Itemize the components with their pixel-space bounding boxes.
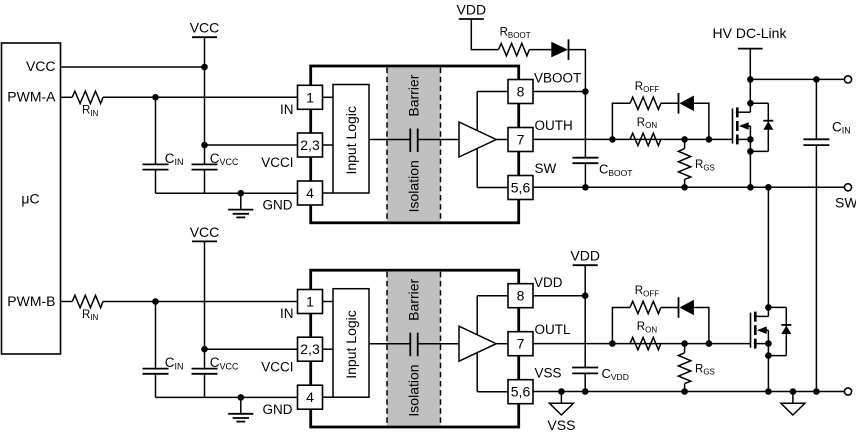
pin 5,6 box [508, 176, 533, 200]
wire rail to pin 8 [477, 295, 508, 297]
node RGS top junction [681, 340, 688, 347]
node RGS bottom junction [681, 388, 688, 395]
resistor RIN [72, 295, 103, 307]
wire PWM to resistor [61, 96, 73, 98]
pin 4 box [298, 385, 323, 409]
svg-text:VSS: VSS [547, 417, 575, 433]
input logic block [333, 85, 369, 194]
wire buffer to pin 7 [496, 139, 508, 141]
svg-text:Barrier: Barrier [406, 278, 422, 320]
node gate junction [706, 340, 713, 347]
svg-text:CIN: CIN [165, 151, 184, 167]
svg-text:VCC: VCC [26, 58, 56, 74]
diode DBOOT [551, 42, 568, 58]
diode DOFF [678, 93, 680, 114]
wire resistor to IN pin [103, 301, 298, 303]
VSS ground symbol [560, 392, 562, 404]
svg-text:RIN: RIN [82, 105, 99, 118]
wire input logic to isolation capacitor [369, 343, 410, 345]
capacitor CIN dc-link [815, 79, 817, 139]
wire VCCI B to pin 2,3 [205, 348, 298, 350]
svg-text:RON: RON [637, 321, 658, 334]
svg-text:PWM-B: PWM-B [7, 293, 55, 309]
svg-text:VBOOT: VBOOT [534, 71, 581, 86]
svg-text:SW: SW [535, 161, 557, 176]
resistor RBOOT [499, 43, 530, 55]
wire Q2 source to ground rail [767, 356, 769, 392]
svg-text:Isolation: Isolation [406, 364, 422, 416]
svg-text:8: 8 [517, 288, 525, 304]
SW output terminal [844, 184, 851, 191]
output buffer amplifier [459, 326, 496, 361]
wire DOFF to gate branch [694, 308, 709, 344]
pin 1 box [298, 85, 323, 109]
output buffer amplifier [459, 122, 496, 157]
svg-text:1: 1 [306, 294, 314, 310]
svg-text:IN: IN [280, 306, 294, 321]
wire VCC stem [204, 37, 206, 67]
svg-text:VCCI: VCCI [261, 359, 293, 374]
svg-text:VCC: VCC [190, 224, 220, 240]
wire VCCI node to CVCC [204, 145, 206, 164]
node gate junction [706, 136, 713, 143]
microcontroller block uC [2, 43, 61, 354]
svg-text:GND: GND [263, 402, 293, 417]
node RGS top junction [681, 136, 688, 143]
svg-text:CVDD: CVDD [602, 366, 629, 382]
svg-text:5,6: 5,6 [511, 384, 531, 400]
node Q2 source junction [765, 388, 772, 395]
transistor Q2 (low side MOSFET) [767, 307, 769, 316]
svg-text:Input Logic: Input Logic [343, 106, 359, 175]
svg-text:CVCC: CVCC [210, 151, 239, 167]
wire buffer to pin 7 [496, 343, 508, 345]
wire buffer supply rail [476, 296, 478, 392]
wire pin 4 to input logic [323, 396, 334, 398]
capacitor CVDD [584, 296, 586, 368]
svg-text:7: 7 [517, 132, 525, 148]
svg-text:CBOOT: CBOOT [599, 162, 632, 178]
wire Q2 drain to SW rail [767, 187, 769, 307]
svg-text:2,3: 2,3 [300, 137, 320, 153]
node VSS symbol junction [558, 388, 565, 395]
svg-text:SW: SW [835, 194, 856, 210]
capacitor CIN [155, 302, 157, 369]
svg-text:Barrier: Barrier [406, 74, 422, 116]
node ROFF left junction [609, 340, 616, 347]
node RGS bottom junction [681, 184, 688, 191]
wire pin 2,3 to input logic [323, 144, 334, 146]
svg-text:7: 7 [517, 336, 525, 352]
wire pin 2,3 to input logic [323, 348, 334, 350]
svg-text:VSS: VSS [535, 365, 562, 380]
pin 1 box [298, 290, 323, 314]
svg-text:PWM-A: PWM-A [7, 88, 56, 104]
node CVDD bottom junction [582, 388, 589, 395]
svg-text:4: 4 [306, 389, 314, 405]
pin 5,6 box [508, 380, 533, 404]
svg-text:CIN: CIN [165, 355, 184, 371]
svg-text:RIN: RIN [82, 309, 99, 322]
node ROFF left junction [609, 136, 616, 143]
svg-text:VDD: VDD [457, 2, 487, 18]
node CIN bottom junction [813, 388, 820, 395]
node Q1 source junction on SW [747, 184, 754, 191]
wire pin 1 to input logic [323, 96, 334, 98]
node VBOOT junction [582, 88, 589, 95]
node VCCI junction (bottom) [201, 346, 208, 353]
node IN junction [152, 94, 159, 101]
node HV junction [747, 76, 754, 83]
capacitor CVCC [192, 163, 218, 165]
HV DC-Link supply bar [738, 48, 763, 50]
pin 8 box [508, 284, 533, 308]
svg-text:1: 1 [306, 89, 314, 105]
svg-text:Isolation: Isolation [406, 160, 422, 212]
gate driver IC outline [311, 66, 519, 223]
wire RBOOT to diode [529, 49, 551, 51]
resistor RGS [684, 344, 686, 353]
pin 2,3 box [298, 133, 323, 157]
wire VSS ground rail [533, 391, 844, 393]
wire ground bus [156, 396, 298, 398]
capacitor CVCC [192, 368, 218, 370]
input logic block [333, 289, 369, 398]
svg-text:RGS: RGS [695, 363, 715, 376]
pin 4 box [298, 181, 323, 205]
svg-text:OUTH: OUTH [535, 118, 573, 133]
node IN junction [152, 298, 159, 305]
wire isolation capacitor to buffer [418, 139, 459, 141]
gate driver IC outline [311, 270, 519, 427]
wire VDD stem [471, 19, 498, 50]
wire pin 8 VBOOT [533, 91, 585, 93]
wire rail to pin 5,6 [477, 391, 508, 393]
svg-text:Input Logic: Input Logic [343, 310, 359, 379]
pin 8 box [508, 80, 533, 104]
node ground junction [238, 394, 245, 401]
node VCC junction [201, 64, 208, 71]
svg-text:VDD: VDD [570, 248, 600, 264]
node CIN top junction [813, 76, 820, 83]
svg-text:ROFF: ROFF [635, 81, 659, 94]
svg-text:RBOOT: RBOOT [500, 27, 531, 40]
node power ground junction [790, 388, 797, 395]
wire input logic to isolation capacitor [369, 139, 410, 141]
svg-text:2,3: 2,3 [300, 341, 320, 357]
wire ROFF to diode DOFF [661, 102, 679, 104]
wire VCC stem to VCCI node (bottom) [204, 241, 206, 349]
svg-text:CVCC: CVCC [210, 355, 239, 371]
wire resistor to IN pin [103, 96, 298, 98]
ground terminal [844, 388, 851, 395]
svg-text:VCC: VCC [190, 20, 220, 36]
wire pin 8 VDD [533, 295, 585, 297]
svg-text:ROFF: ROFF [635, 285, 659, 298]
wire pin 1 to input logic [323, 301, 334, 303]
isolation barrier region [387, 68, 441, 222]
svg-text:VCCI: VCCI [261, 155, 293, 170]
wire diode to VBOOT node [569, 50, 586, 92]
HV+ terminal [844, 76, 851, 83]
wire rail to pin 5,6 [477, 187, 508, 189]
isolation capacitor [409, 333, 411, 357]
wire rail to pin 8 [477, 91, 508, 93]
svg-text:4: 4 [306, 185, 314, 201]
svg-text:CIN: CIN [832, 120, 851, 136]
wire OUT to gate [533, 343, 751, 345]
wire DOFF to gate branch [694, 103, 709, 139]
node Q2 drain junction on SW [765, 184, 772, 191]
wire VCCI A to pin 2,3 [205, 144, 298, 146]
isolation barrier region [387, 272, 441, 426]
diode DOFF [678, 297, 680, 318]
svg-text:5,6: 5,6 [511, 180, 531, 196]
wire PWM to resistor [61, 301, 73, 303]
svg-text:HV DC-Link: HV DC-Link [713, 25, 788, 41]
wire buffer supply rail [476, 92, 478, 188]
svg-text:GND: GND [263, 198, 293, 213]
svg-text:8: 8 [517, 84, 525, 100]
wire uC VCC to rail [61, 66, 205, 68]
svg-text:VDD: VDD [534, 275, 563, 290]
pin 7 box [508, 332, 533, 356]
resistor RON [630, 133, 661, 145]
ground symbol [240, 397, 242, 413]
wire VCCI node to CVCC (bottom) [204, 349, 206, 368]
node VCCI junction [201, 142, 208, 149]
node VDD junction [582, 292, 589, 299]
resistor RGS [684, 139, 686, 148]
svg-text:OUTL: OUTL [535, 322, 571, 337]
resistor RON [630, 337, 661, 349]
wire ROFF to diode DOFF [661, 307, 679, 309]
wire OUT to gate [533, 138, 733, 140]
power ground symbol [792, 392, 794, 404]
ground symbol [240, 193, 242, 209]
pin 2,3 box [298, 337, 323, 361]
resistor ROFF branch [612, 103, 630, 139]
resistor ROFF branch [612, 308, 630, 344]
transistor Q1 (high side MOSFET) [749, 103, 751, 112]
node ground junction [238, 190, 245, 197]
wire Q1 source to SW rail [749, 151, 751, 187]
svg-text:μC: μC [21, 190, 39, 206]
svg-text:RGS: RGS [695, 159, 715, 172]
wire VCC rail down to VCCI node [204, 67, 206, 145]
wire HV stem [749, 49, 751, 104]
pin 7 box [508, 128, 533, 152]
wire pin 4 to input logic [323, 192, 334, 194]
wire isolation capacitor to buffer [418, 343, 459, 345]
wire VDD stem to pin8 node [584, 265, 586, 296]
node CBOOT bottom junction [582, 184, 589, 191]
wire HV rail to terminal [750, 78, 844, 80]
isolation capacitor [409, 129, 411, 153]
svg-text:IN: IN [280, 102, 294, 117]
svg-text:RON: RON [637, 117, 658, 130]
capacitor CIN [155, 97, 157, 164]
wire ground bus [156, 192, 298, 194]
wire SW rail [533, 186, 844, 188]
resistor RIN [72, 91, 103, 103]
capacitor CBOOT [584, 92, 586, 158]
